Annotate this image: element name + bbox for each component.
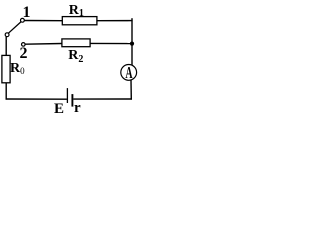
switch blade (8, 22, 21, 33)
label A (ammeter) (125, 65, 132, 82)
label R2 (68, 49, 83, 63)
ammeter U1 circle (121, 65, 137, 81)
wire right vertical (corner to ammeter) (131, 18, 133, 65)
switch pivot (5, 33, 9, 37)
label 2 (contact 2) (20, 46, 28, 62)
wire left lower (R0 to bottom corner) (5, 83, 7, 100)
wire bottom left (corner to battery) (6, 98, 67, 100)
wire ammeter to bottom corner (130, 80, 132, 100)
wire top branch left (contact 1 to R1) (24, 20, 62, 22)
switch contact 1 (21, 18, 25, 22)
battery long plate (66, 88, 68, 103)
label R1 (69, 4, 84, 18)
battery short plate (71, 94, 73, 107)
resistor R2 (62, 39, 90, 47)
resistor R0 (2, 55, 10, 82)
wire bottom right (battery to corner) (73, 98, 132, 100)
label E (emf) (54, 102, 64, 117)
label r (internal resistance) (74, 101, 81, 116)
switch contact 2 (22, 43, 26, 47)
node junction dot (130, 42, 134, 46)
wire top branch right (R1 to top-right corner) (97, 20, 133, 22)
wire left upper (pivot to R0) (5, 37, 7, 56)
wire middle branch left (contact 2 to R2) (25, 43, 62, 46)
resistor R1 (62, 17, 97, 25)
label 1 (contact 1) (23, 5, 31, 21)
wire middle branch right (R2 to junction) (90, 42, 133, 44)
label R0 (10, 62, 25, 76)
